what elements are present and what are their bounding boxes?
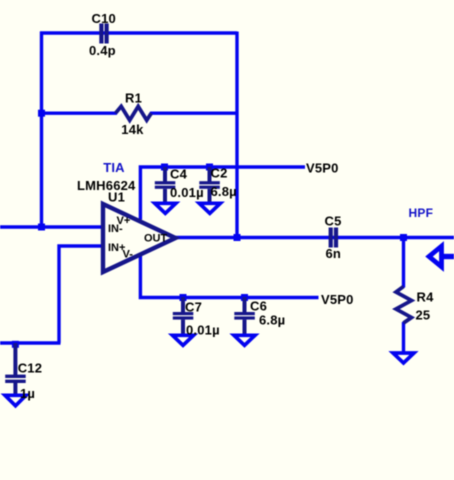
- svg-text:OUT: OUT: [144, 233, 168, 245]
- svg-text:C4: C4: [170, 166, 188, 181]
- svg-text:IN-: IN-: [108, 223, 123, 235]
- svg-text:C5: C5: [325, 213, 342, 228]
- svg-text:V-: V-: [123, 249, 134, 261]
- svg-text:0.01µ: 0.01µ: [186, 323, 220, 338]
- svg-text:0.01µ: 0.01µ: [170, 185, 204, 200]
- svg-text:0.4p: 0.4p: [89, 43, 116, 58]
- svg-text:R4: R4: [417, 290, 435, 305]
- svg-text:C6: C6: [250, 299, 267, 314]
- svg-text:U1: U1: [108, 189, 125, 204]
- svg-text:V5P0: V5P0: [321, 292, 354, 307]
- svg-text:LMH6624: LMH6624: [77, 178, 136, 193]
- svg-text:1µ: 1µ: [20, 386, 35, 401]
- svg-text:HPF: HPF: [409, 206, 434, 220]
- svg-text:25: 25: [416, 308, 431, 323]
- svg-text:TIA: TIA: [103, 160, 125, 175]
- svg-text:V5P0: V5P0: [306, 160, 339, 175]
- svg-text:14k: 14k: [121, 122, 144, 137]
- svg-text:C12: C12: [18, 360, 42, 375]
- svg-text:C10: C10: [92, 11, 116, 26]
- svg-text:6.8µ: 6.8µ: [259, 313, 285, 328]
- svg-text:R1: R1: [125, 91, 142, 106]
- svg-text:6n: 6n: [326, 246, 342, 261]
- svg-text:C2: C2: [211, 166, 228, 181]
- svg-text:C7: C7: [185, 299, 202, 314]
- svg-text:6.8µ: 6.8µ: [211, 184, 237, 199]
